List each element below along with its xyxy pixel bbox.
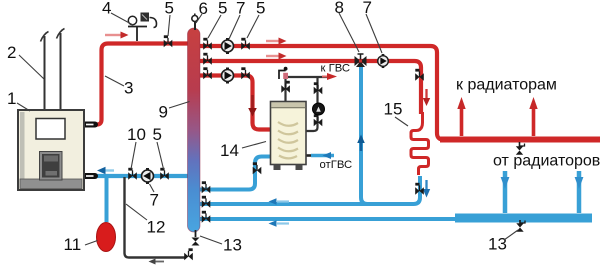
svg-text:от радиаторов: от радиаторов xyxy=(493,153,600,170)
svg-text:7: 7 xyxy=(363,0,372,17)
svg-text:3: 3 xyxy=(124,79,133,98)
svg-text:5: 5 xyxy=(256,0,265,18)
svg-text:13: 13 xyxy=(488,235,507,254)
svg-text:7: 7 xyxy=(150,191,159,210)
svg-text:к радиаторам: к радиаторам xyxy=(456,77,557,94)
svg-text:9: 9 xyxy=(159,103,168,122)
svg-text:5: 5 xyxy=(153,125,162,144)
svg-text:к ГВС: к ГВС xyxy=(321,63,351,75)
svg-text:10: 10 xyxy=(127,125,146,144)
svg-text:отГВС: отГВС xyxy=(320,159,353,171)
svg-text:5: 5 xyxy=(218,0,227,18)
svg-text:7: 7 xyxy=(236,0,245,18)
svg-text:6: 6 xyxy=(199,0,208,18)
svg-text:1: 1 xyxy=(7,89,16,108)
svg-text:12: 12 xyxy=(147,218,166,237)
svg-text:5: 5 xyxy=(165,0,174,18)
svg-text:15: 15 xyxy=(384,100,403,119)
svg-text:14: 14 xyxy=(220,141,239,160)
svg-text:2: 2 xyxy=(7,43,16,62)
svg-text:11: 11 xyxy=(64,235,82,254)
svg-text:13: 13 xyxy=(223,236,242,255)
svg-text:4: 4 xyxy=(102,0,111,18)
